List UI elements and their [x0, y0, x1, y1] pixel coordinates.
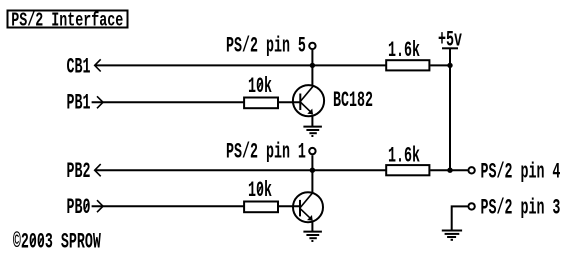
terminal circle PS/2 pin 5 — [309, 43, 315, 49]
junction R3/+5v rail — [447, 168, 452, 173]
svg-text:PS/2 pin 1: PS/2 pin 1 — [226, 140, 306, 164]
wire +5v rail vertical — [449, 48, 451, 171]
arrowhead PB0 (points right) — [97, 200, 103, 212]
arrowhead PB2 (points left) — [95, 164, 101, 176]
resistor R2 10k (top) — [244, 98, 278, 109]
resistor R3 1.6k (bottom) — [386, 165, 429, 175]
svg-text:10k: 10k — [248, 179, 272, 203]
svg-text:©2003 SPROW: ©2003 SPROW — [13, 231, 101, 255]
svg-text:PS/2 pin 4: PS/2 pin 4 — [481, 161, 561, 185]
wire pin5 to collector of Q1 — [311, 50, 313, 87]
slashed-zero detail strokes — [31, 81, 262, 245]
arrowhead PB1 (points right) — [97, 96, 103, 108]
wire PB0 row — [92, 205, 244, 207]
terminal circle PS/2 pin 1 — [309, 148, 315, 154]
svg-text:PB0: PB0 — [67, 196, 91, 220]
resistor R4 10k (bottom) — [244, 202, 278, 213]
wire Q1 emitter to ground — [311, 115, 313, 127]
junction R1/+5v — [447, 63, 452, 68]
svg-text:BC182: BC182 — [333, 89, 373, 113]
wire pin1 to collector of Q2 — [311, 155, 313, 193]
wire R4 to base of Q2 — [279, 205, 300, 207]
svg-text:10k: 10k — [248, 75, 272, 99]
power +5v bar — [442, 47, 458, 49]
ground (Q1 emitter) — [303, 127, 322, 136]
svg-text:1.6k: 1.6k — [388, 145, 420, 169]
svg-text:PS/2 pin 5: PS/2 pin 5 — [226, 35, 306, 59]
svg-text:PB2: PB2 — [67, 160, 91, 184]
terminal circle PS/2 pin 4 — [468, 167, 474, 173]
transistor Q1 BC182 — [293, 85, 324, 116]
svg-text:1.6k: 1.6k — [388, 39, 420, 63]
junction CB1/pin5 — [310, 63, 315, 68]
wire R1 to +5v rail — [430, 64, 450, 66]
wire R2 to base of Q1 — [279, 101, 301, 103]
svg-text:PB1: PB1 — [67, 91, 91, 115]
wire CB1 row — [95, 64, 386, 66]
title box — [8, 11, 128, 28]
resistor R1 1.6k (top) — [386, 60, 429, 70]
wire PB2 row — [95, 169, 386, 171]
transistor Q2 — [293, 192, 323, 222]
ground (Q2 emitter) — [303, 232, 322, 241]
junction PB2/pin1 — [310, 168, 315, 173]
wire Q2 emitter to ground — [311, 221, 313, 232]
svg-text:CB1: CB1 — [67, 55, 91, 79]
wire pin 3 to ground — [452, 206, 468, 230]
ground (pin 3) — [442, 231, 462, 240]
terminal circle PS/2 pin 3 — [468, 203, 474, 209]
arrowhead CB1 (points left) — [95, 59, 101, 71]
svg-text:PS/2 Interface: PS/2 Interface — [11, 9, 123, 31]
wire R3 to pin 4 — [430, 169, 467, 171]
wire PB1 row — [92, 101, 244, 103]
svg-text:PS/2 pin 3: PS/2 pin 3 — [481, 196, 561, 220]
